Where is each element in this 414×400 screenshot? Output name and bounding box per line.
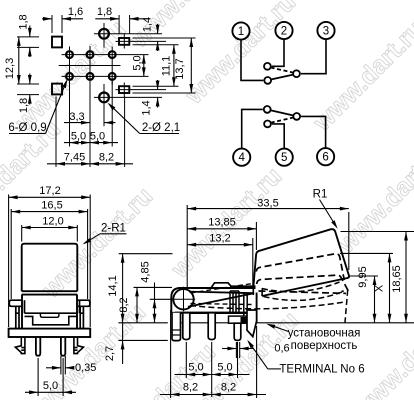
dimension 9,95: [374, 276, 376, 323]
ext paddle top corner: [341, 231, 414, 233]
front terminal 2: [208, 313, 215, 340]
svg-text:3,3: 3,3: [69, 111, 84, 123]
svg-text:17,2: 17,2: [39, 185, 60, 197]
svg-text:13,2: 13,2: [209, 233, 230, 245]
down position sweep across body: [190, 302, 343, 309]
ext middle position corner: [340, 252, 393, 254]
bottom-right pad horizontal center line: [116, 89, 167, 91]
dark insert in block: [241, 317, 248, 323]
swept bottom dashed arcs: [262, 282, 340, 292]
svg-text:1,8: 1,8: [97, 6, 112, 18]
svg-text:1,8: 1,8: [18, 98, 30, 113]
dimension 1,8 left top: [29, 26, 31, 37]
extension line pad right: [129, 15, 131, 34]
dimension 5,0 5,0 terminals: [185, 342, 187, 378]
dimension 3,3: [64, 122, 90, 124]
svg-text:16,5: 16,5: [41, 200, 62, 212]
wire pin3 to contact C: [301, 39, 326, 74]
dimension 18,65: [405, 232, 407, 323]
right mounting ear: [77, 300, 90, 328]
bottom 2.1 hole horizontal center line: [94, 96, 162, 98]
wire pin5 to contact E: [272, 124, 284, 149]
hole column 2 center line / extension: [89, 46, 91, 167]
lever contact A-C dashed: [271, 68, 294, 73]
contact E: [264, 121, 271, 128]
dimension 13,7: [190, 38, 192, 93]
top-right pad vertical center line: [123, 34, 125, 49]
svg-text:1,4: 1,4: [141, 100, 153, 115]
svg-text:5,0: 5,0: [217, 362, 232, 374]
paddle solid up position: [253, 229, 349, 296]
mounting plane line left: [118, 322, 167, 324]
pin 6 terminal circle: [317, 148, 334, 165]
dimension 1,8 top: [95, 18, 119, 20]
ext down position corner: [350, 275, 378, 277]
pin 2 terminal circle: [275, 22, 292, 39]
ext from left pad center: [55, 97, 57, 168]
hole row 2 center line: [62, 75, 149, 77]
contact C: [293, 70, 300, 77]
lever needle solid: [188, 292, 254, 307]
pin 1 terminal circle: [232, 22, 249, 39]
side foot: [172, 313, 181, 341]
dimension 5,0 right: [143, 55, 145, 77]
body side walls: [21, 295, 23, 329]
dimension 1,8 left bottom: [29, 74, 31, 85]
rectangular pad top-right: [119, 38, 129, 45]
svg-text:установочная: установочная: [288, 328, 361, 340]
svg-text:7,45: 7,45: [64, 152, 85, 164]
extension line sq top: [17, 36, 39, 38]
ext pad1 top: [133, 37, 196, 39]
bottom 2.1 hole vertical center line: [103, 84, 105, 126]
extension line bottom sq top: [17, 83, 39, 85]
square pad bottom-left: [52, 84, 62, 95]
mounting flange: [9, 329, 91, 337]
ext foot bottom left: [118, 339, 167, 341]
lever contact D-F solid: [270, 110, 293, 115]
dimension 16,5: [10, 209, 12, 299]
contact F: [293, 113, 300, 120]
body right edge: [256, 293, 258, 323]
svg-text:18,65: 18,65: [391, 265, 403, 293]
svg-text:5,0: 5,0: [131, 55, 143, 70]
right foot: [74, 337, 84, 354]
wire pin1 to contact B: [241, 40, 263, 81]
contact A: [264, 63, 271, 70]
svg-text:1,8: 1,8: [18, 14, 30, 29]
dimension 12,0: [21, 225, 23, 242]
paddle down position dashed: [257, 275, 348, 291]
svg-text:TERMINAL No 6: TERMINAL No 6: [279, 364, 364, 376]
dimension 2,7: [122, 323, 124, 341]
wire pin6 to contact F: [301, 116, 326, 148]
svg-text:0,6: 0,6: [274, 343, 289, 355]
body top bump: [211, 283, 256, 288]
dimension 13,2: [252, 238, 254, 288]
svg-text:0,35: 0,35: [75, 362, 96, 374]
svg-text:33,5: 33,5: [257, 197, 278, 209]
square pad top-left: [52, 37, 62, 48]
lever contact E-F dashed: [271, 118, 294, 123]
dimension 4,85: [150, 298, 172, 300]
body top edge: [22, 294, 78, 296]
extension line square left: [51, 15, 53, 33]
svg-text:6: 6: [322, 152, 328, 164]
hole 0.9mm #6: [109, 73, 116, 80]
svg-text:5,0: 5,0: [188, 362, 203, 374]
dimension 8,2 left: [136, 287, 138, 322]
body bottom thick line: [175, 312, 247, 314]
wire pin2 to contact A: [272, 39, 284, 66]
hole column 3 center line: [111, 47, 113, 85]
svg-text:поверхность: поверхность: [291, 340, 358, 352]
flange line 2 on foot: [172, 334, 181, 336]
dimension 5,0 5,0 bottom: [64, 142, 118, 144]
extension line square right: [61, 15, 63, 33]
dimension 1,6: [42, 18, 52, 20]
svg-text:8,2: 8,2: [99, 152, 114, 164]
lever needle dashed low: [191, 304, 252, 305]
extension line bottom sq bottom: [17, 94, 39, 96]
svg-text:12,0: 12,0: [42, 216, 63, 228]
hole 2.1mm top: [99, 29, 109, 39]
pin 3 terminal circle: [317, 22, 334, 39]
svg-text:9,95: 9,95: [357, 266, 369, 287]
paddle down bottom edge dashed: [259, 291, 346, 293]
svg-text:13,85: 13,85: [208, 217, 236, 229]
ext from right pad center: [124, 97, 126, 168]
mounting plane line under body: [182, 322, 257, 324]
rocker bottom edge: [22, 290, 78, 292]
paddle neck into body: [253, 288, 262, 296]
front terminal 1: [183, 313, 190, 340]
hole 0.9mm #5: [87, 73, 94, 80]
svg-text:2: 2: [281, 26, 287, 38]
dimension 8,2 8,2 bottom: [170, 310, 172, 398]
pin 5 terminal circle: [276, 149, 293, 166]
dimension 1,4 top right: [157, 24, 159, 34]
rocker button front: [22, 244, 78, 292]
ext col1 down: [69, 80, 71, 147]
boss horizontal center line: [172, 298, 195, 300]
footprint horizontal center line: [59, 65, 121, 67]
paddle down right edge dashed below plane: [345, 290, 348, 323]
pin left front: [36, 337, 40, 356]
wire pin4 to contact D: [242, 109, 263, 148]
dimension 33,5: [186, 205, 188, 288]
left mounting ear: [9, 300, 22, 328]
pin 4 terminal circle: [233, 149, 250, 166]
hole 0.9mm #2: [87, 51, 94, 58]
inner tab: [40, 313, 59, 317]
contact D: [264, 106, 271, 113]
svg-text:5,0: 5,0: [71, 131, 86, 143]
pin right front: [61, 337, 65, 356]
ext pad2 bottom: [133, 92, 196, 94]
bottom-right pad vertical center line: [123, 83, 125, 98]
svg-text:14,1: 14,1: [107, 275, 119, 296]
terminal 6 back vertical: [244, 293, 247, 317]
front terminal 3: [234, 323, 241, 340]
svg-text:R1: R1: [313, 189, 328, 201]
svg-text:12,3: 12,3: [4, 58, 16, 79]
inner cavity: [16, 312, 84, 314]
dimension 0,35: [60, 356, 62, 375]
extension line sq bottom: [17, 46, 39, 48]
svg-text:8,2: 8,2: [221, 382, 236, 394]
side body outline: [171, 288, 255, 313]
top-right pad horizontal center line: [116, 40, 167, 42]
svg-text:8,2: 8,2: [183, 382, 198, 394]
svg-text:3: 3: [323, 26, 329, 38]
svg-text:1,4: 1,4: [142, 17, 154, 32]
dimension 0,6: [235, 342, 237, 358]
svg-text:5,0: 5,0: [43, 380, 58, 392]
contact B: [264, 77, 271, 84]
hole 0.9mm #1: [66, 51, 73, 58]
dimension 11,1: [173, 45, 175, 86]
terminal 6 fang: [247, 310, 257, 337]
svg-text:13,7: 13,7: [174, 58, 186, 79]
rectangular pad bottom-right: [119, 86, 129, 93]
ext body top left: [134, 286, 173, 288]
hole row 1 center line: [62, 54, 149, 56]
dimension X: [389, 253, 391, 322]
lever contact B-C solid: [271, 75, 293, 80]
ext pad2 top: [133, 85, 179, 87]
svg-text:4: 4: [238, 152, 245, 164]
dimension 12,3: [18, 37, 20, 84]
mounting plane line right: [257, 322, 414, 324]
block between terminals: [229, 316, 249, 323]
center post: [230, 291, 239, 313]
svg-text:2-R1: 2-R1: [101, 223, 126, 235]
ext col3 down: [111, 80, 113, 147]
svg-text:X: X: [374, 284, 386, 292]
flange line on foot: [172, 329, 181, 331]
svg-text:2-Ø 2,1: 2-Ø 2,1: [142, 122, 180, 134]
svg-text:11,1: 11,1: [160, 56, 172, 77]
svg-text:1: 1: [238, 26, 244, 38]
svg-text:5: 5: [281, 152, 287, 164]
dimension 14,1: [119, 253, 173, 255]
svg-text:4,85: 4,85: [140, 261, 152, 282]
svg-text:2,7: 2,7: [104, 346, 116, 361]
extension line pad left: [118, 15, 120, 34]
dimension 5,0 pins: [37, 358, 39, 396]
hole column 1 center line: [69, 47, 71, 85]
svg-text:6-Ø 0,9: 6-Ø 0,9: [8, 122, 46, 134]
left foot: [15, 337, 25, 354]
pivot boss circle: [173, 289, 193, 309]
boss vertical center line: [183, 287, 185, 312]
svg-text:1,6: 1,6: [68, 6, 83, 18]
ext pad1 bottom: [133, 44, 179, 46]
dimension 17,2: [8, 195, 10, 328]
paddle middle position dashed: [256, 254, 344, 280]
top 2.1 hole vertical center line: [103, 23, 105, 48]
hole 0.9mm #4: [66, 73, 73, 80]
svg-text:5,0: 5,0: [90, 131, 105, 143]
dimension 1,4 bottom right: [157, 80, 159, 90]
hole 0.9mm #3: [109, 51, 116, 58]
lever needle dashed up: [191, 284, 253, 294]
top 2.1 hole horizontal center line: [94, 33, 162, 35]
svg-text:8,2: 8,2: [118, 297, 130, 312]
dimension 13,85: [255, 222, 257, 250]
hole 2.1mm bottom: [99, 93, 109, 103]
